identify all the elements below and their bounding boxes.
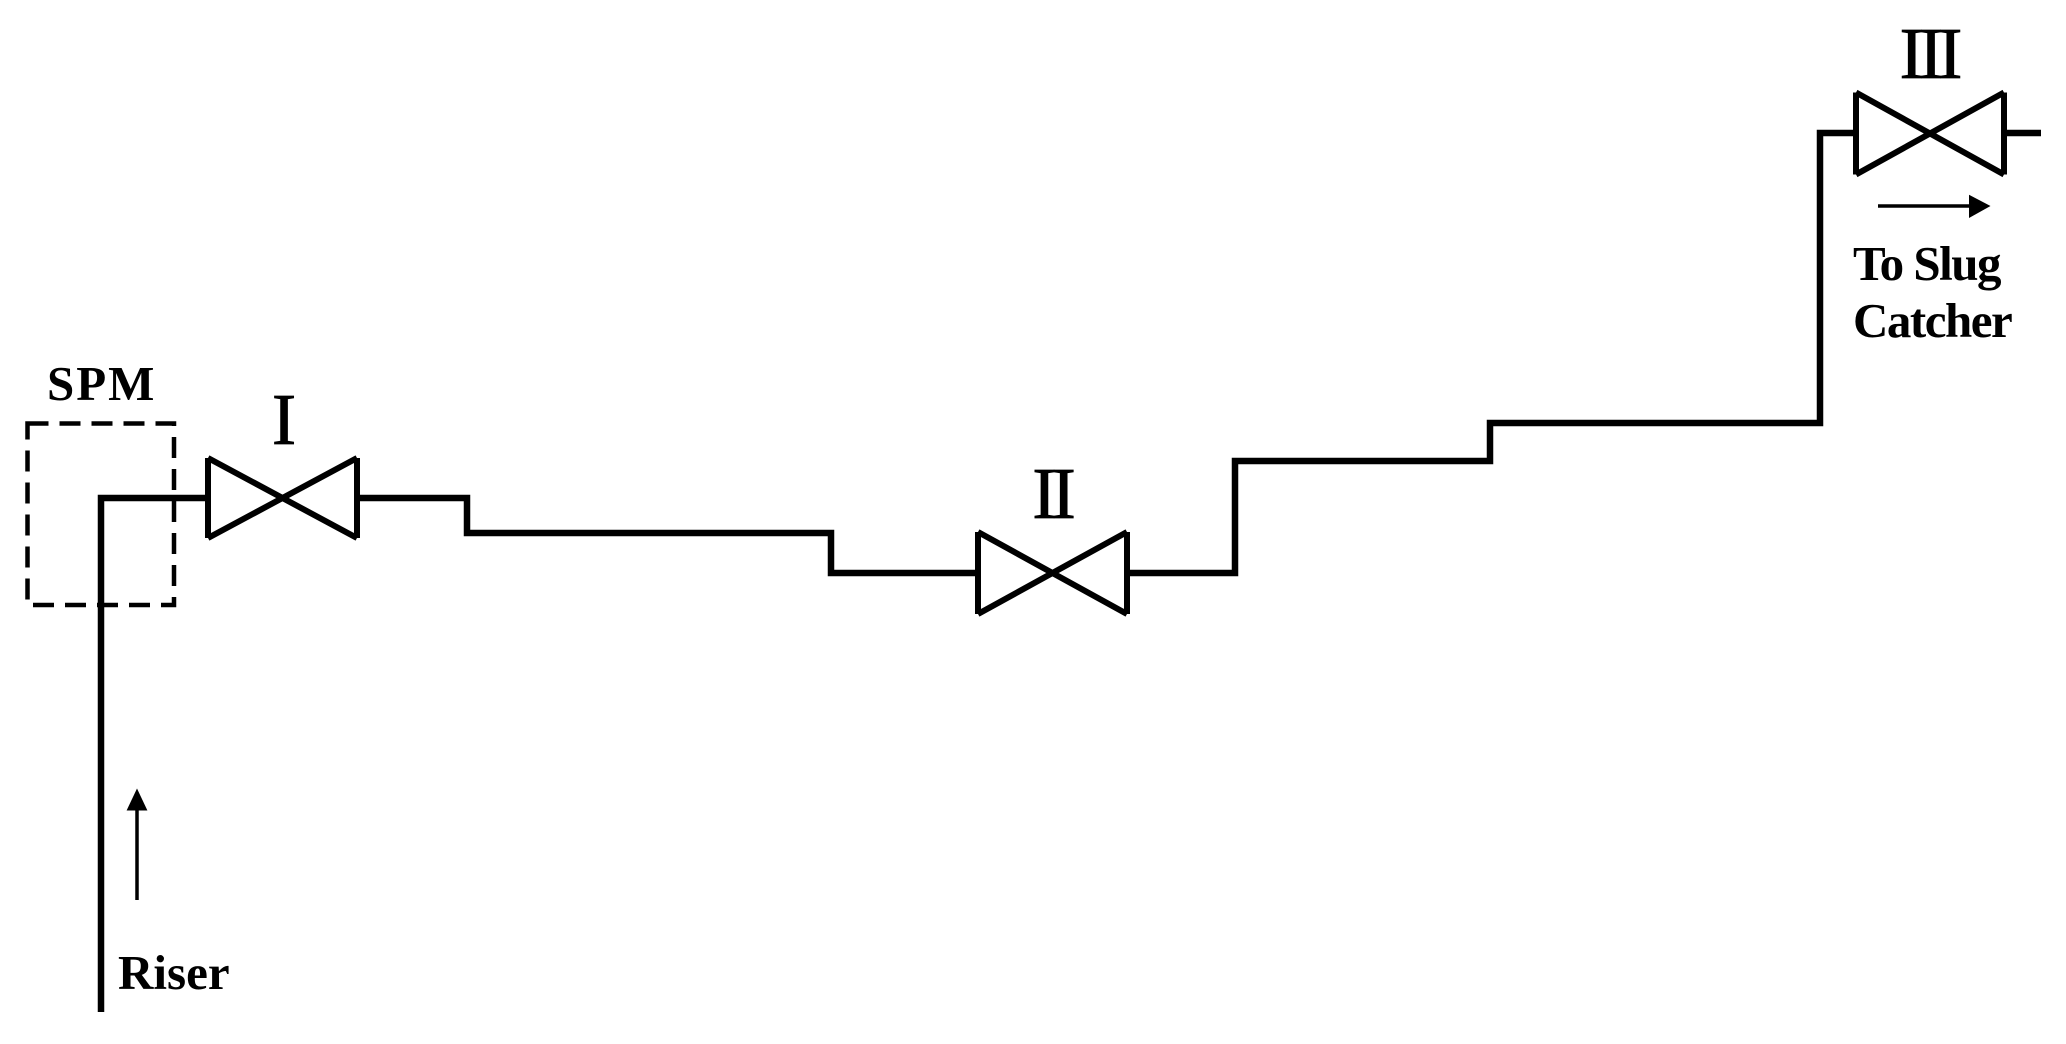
wire riser vertical and into valve I	[101, 498, 208, 1012]
riser flow arrow	[127, 789, 148, 901]
svg-text:III: III	[1900, 13, 1961, 94]
wire valve I to valve II (two step-downs)	[357, 498, 978, 573]
wire outlet from valve III	[2004, 130, 2041, 137]
svg-text:I: I	[272, 379, 296, 460]
valve I	[208, 458, 357, 538]
svg-text:To Slug: To Slug	[1853, 236, 2002, 291]
wire valve II to valve III (two step-ups and long rise)	[1127, 133, 1856, 573]
flow arrow to slug catcher	[1878, 195, 1991, 218]
svg-text:II: II	[1032, 453, 1073, 534]
svg-text:SPM: SPM	[47, 356, 156, 411]
svg-text:Catcher: Catcher	[1853, 293, 2012, 348]
valve III	[1856, 93, 2004, 175]
valve II	[978, 532, 1127, 614]
SPM dashed enclosure box	[28, 424, 175, 606]
svg-text:Riser: Riser	[118, 945, 230, 1000]
